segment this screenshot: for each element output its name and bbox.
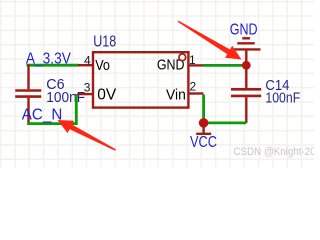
svg-text:Vin: Vin xyxy=(166,86,186,103)
svg-text:A_3.3V: A_3.3V xyxy=(26,50,71,67)
wire VCC junction to C14 xyxy=(204,122,247,125)
svg-text:3: 3 xyxy=(84,80,91,94)
svg-text:0V: 0V xyxy=(97,86,117,103)
pin 3 xyxy=(77,93,93,95)
pin 1 xyxy=(188,64,203,66)
power port VCC xyxy=(196,123,211,134)
pin 1 dot symbol xyxy=(179,54,186,61)
wire pin1 to GND junction xyxy=(203,64,244,67)
junction at VCC xyxy=(199,118,209,128)
svg-text:VCC: VCC xyxy=(190,134,217,151)
svg-text:4: 4 xyxy=(84,53,91,67)
wire pin2 down xyxy=(202,95,205,123)
annotation arrow (to AC_N) xyxy=(58,120,116,151)
pin 4 xyxy=(78,64,93,66)
svg-text:Vo: Vo xyxy=(95,57,110,74)
wire net AC_N (horizontal) xyxy=(27,122,77,125)
svg-text:100nF: 100nF xyxy=(46,90,85,106)
ground symbol xyxy=(232,38,261,64)
pin 2 xyxy=(188,92,203,94)
junction at GND xyxy=(242,61,251,70)
svg-text:AC_N: AC_N xyxy=(22,106,63,123)
svg-text:U18: U18 xyxy=(93,33,116,50)
svg-text:100nF: 100nF xyxy=(265,90,300,106)
capacitor C6 xyxy=(15,65,41,125)
wire net AC_N (vertical to pin 3) xyxy=(75,94,78,125)
svg-text:CSDN @Knight-20: CSDN @Knight-20 xyxy=(234,146,315,158)
annotation arrow (to GND junction) xyxy=(178,21,242,60)
svg-text:1: 1 xyxy=(189,53,196,67)
wire net A_3.3V (horizontal to pin 4) xyxy=(27,64,80,67)
capacitor C14 xyxy=(231,65,261,123)
svg-text:GND: GND xyxy=(230,22,258,39)
svg-text:2: 2 xyxy=(190,79,197,93)
op-amp regulator U18 body xyxy=(93,52,188,107)
